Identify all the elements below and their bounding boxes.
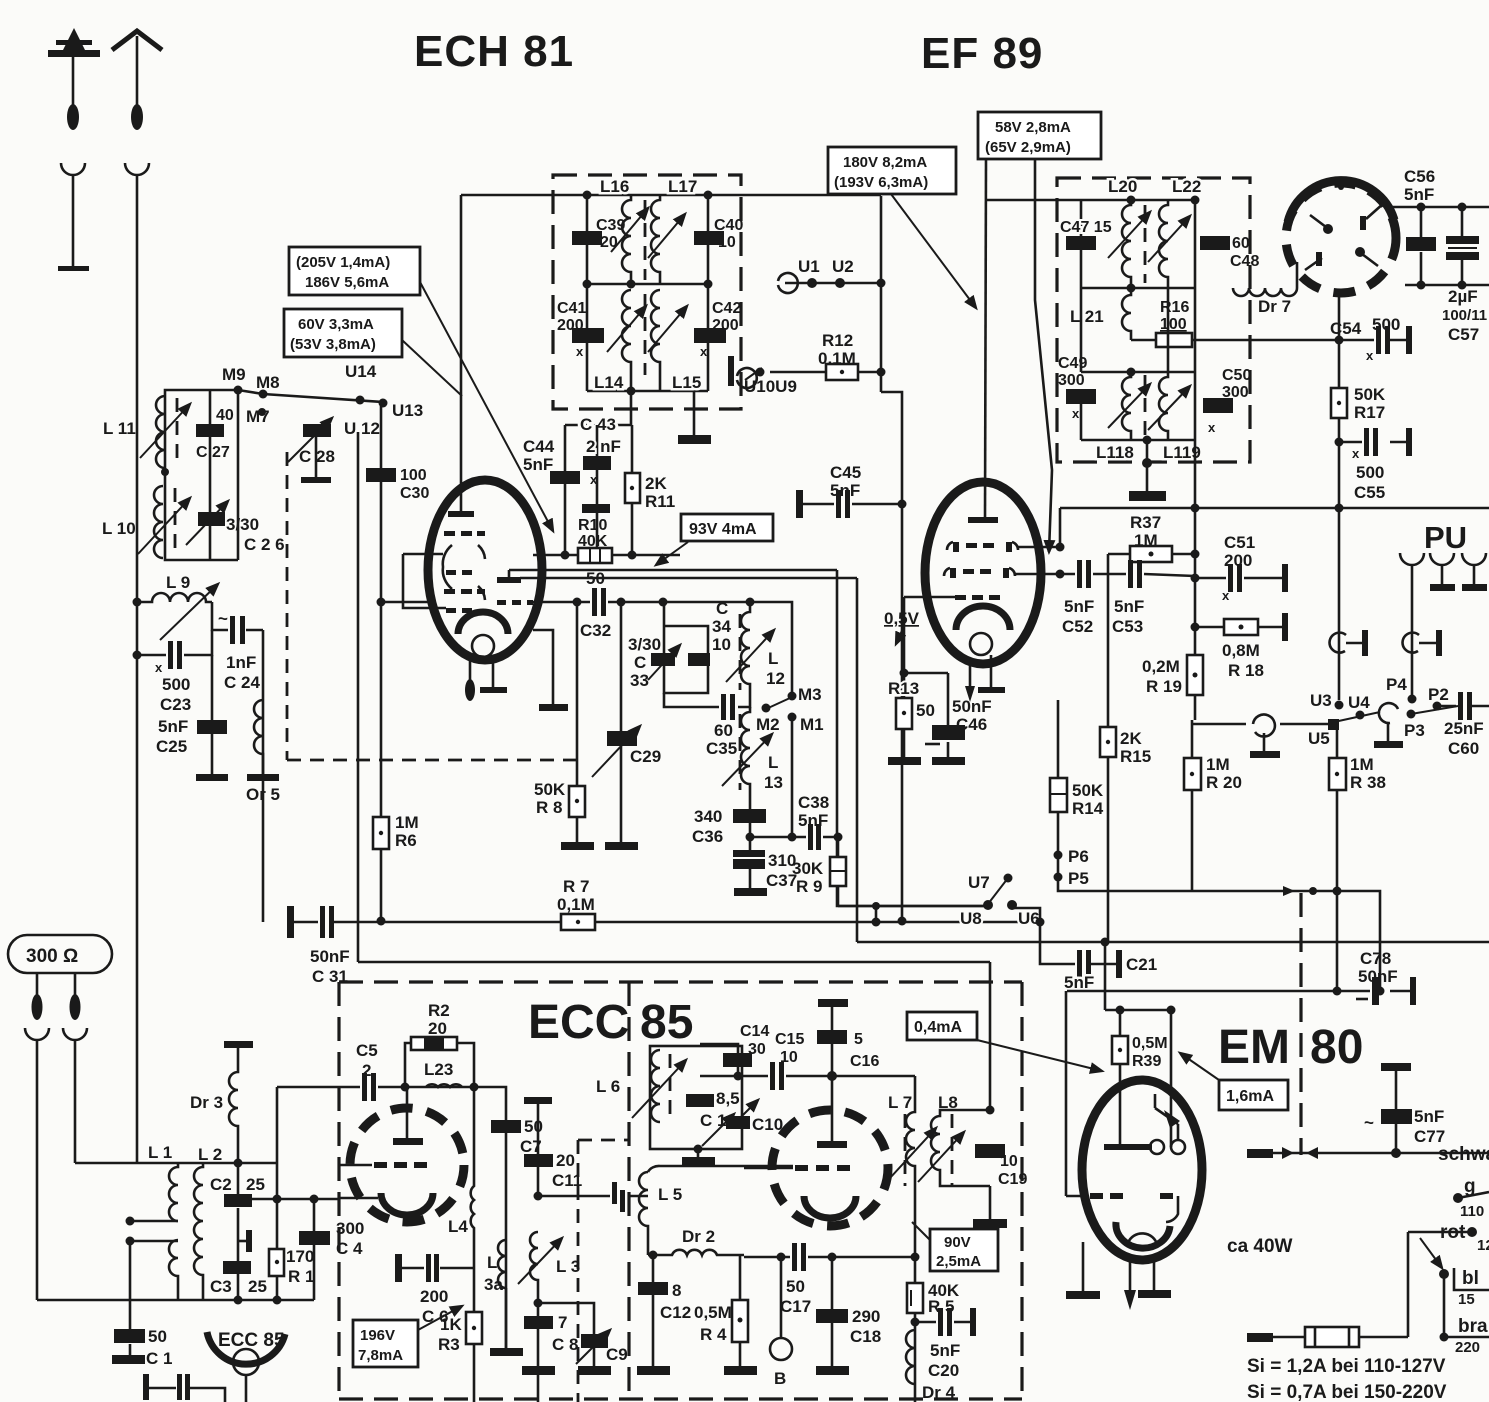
- svg-text:1M: 1M: [1350, 755, 1374, 774]
- svg-text:40: 40: [216, 407, 234, 424]
- coil L13: [741, 707, 750, 811]
- trimmer arrow L10: [138, 498, 190, 554]
- capacitor C44 5nF: [564, 425, 567, 555]
- svg-text:R39: R39: [1132, 1053, 1161, 1070]
- svg-text:L 10: L 10: [102, 519, 136, 538]
- coil L11: [156, 396, 165, 468]
- capacitor C50 300: [1194, 288, 1197, 440]
- PU socket 3: [1462, 553, 1486, 565]
- AVC dashed line vertical: [286, 452, 289, 760]
- wire bottom rail right: [1405, 284, 1489, 287]
- svg-text:bl: bl: [1462, 1268, 1479, 1289]
- svg-text:R 7: R 7: [563, 877, 589, 896]
- capacitor C53 5nF: [1124, 574, 1195, 576]
- svg-text:0,4mA: 0,4mA: [914, 1019, 962, 1036]
- svg-text:0,5M: 0,5M: [1132, 1035, 1168, 1052]
- wire grid row to L23: [405, 1086, 474, 1089]
- capacitor C11 20: [524, 1154, 553, 1167]
- wire C24 right to AVC column: [262, 630, 265, 922]
- coil L6: [651, 1050, 660, 1122]
- ECH81 cathode leads: [469, 658, 472, 684]
- svg-text:Or 5: Or 5: [246, 785, 280, 804]
- mains selector switch: [1408, 1232, 1472, 1337]
- wire L3a bottom to ground: [505, 1288, 508, 1352]
- coil L20: [1122, 200, 1131, 288]
- EF89 cathode arc: [956, 606, 1010, 630]
- svg-text:L 21: L 21: [1070, 307, 1104, 326]
- svg-text:500: 500: [1356, 463, 1384, 482]
- svg-text:34: 34: [712, 617, 731, 636]
- svg-text:2K: 2K: [645, 474, 667, 493]
- svg-text:U6: U6: [1018, 909, 1040, 928]
- AVC dashed line horizontal: [287, 759, 578, 762]
- svg-text:200: 200: [712, 317, 739, 334]
- svg-text:33: 33: [630, 671, 649, 690]
- svg-text:C40: C40: [714, 217, 743, 234]
- capacitor C45 5nF: [800, 503, 902, 506]
- svg-text:P5: P5: [1068, 869, 1089, 888]
- fuse Si: [1272, 1336, 1408, 1339]
- svg-text:M8: M8: [256, 373, 280, 392]
- svg-text:R12: R12: [822, 331, 853, 350]
- svg-text:10: 10: [718, 234, 736, 251]
- triode A cathode arc: [381, 1193, 433, 1215]
- svg-text:schwa: schwa: [1438, 1144, 1489, 1165]
- svg-text:L 9: L 9: [166, 573, 190, 592]
- coil L9: [137, 593, 212, 602]
- coil L118: [1122, 372, 1131, 440]
- svg-text:58V 2,8mA: 58V 2,8mA: [995, 119, 1071, 136]
- svg-text:U14: U14: [345, 362, 377, 381]
- tube ECH81 envelope: [428, 480, 542, 660]
- svg-text:L: L: [487, 1253, 497, 1272]
- svg-text:R2: R2: [428, 1001, 450, 1020]
- svg-text:60: 60: [714, 721, 733, 740]
- svg-text:L20: L20: [1108, 177, 1137, 196]
- svg-text:R 38: R 38: [1350, 773, 1386, 792]
- svg-text:50nF: 50nF: [310, 947, 350, 966]
- svg-text:85: 85: [640, 996, 693, 1049]
- svg-text:3a: 3a: [484, 1275, 503, 1294]
- svg-text:0,1M: 0,1M: [557, 895, 595, 914]
- svg-text:x: x: [590, 472, 598, 487]
- contact P2 and capacitor C60 25nF: [1433, 702, 1442, 711]
- svg-text:300: 300: [336, 1219, 364, 1238]
- trimmer capacitor C33 3/30: [651, 653, 675, 666]
- svg-text:P4: P4: [1386, 675, 1407, 694]
- wire PU/U3 column: [1338, 508, 1341, 700]
- svg-text:C53: C53: [1112, 617, 1143, 636]
- wire magic eye column: [1338, 293, 1341, 508]
- EF89 row2 wire to C52: [1015, 573, 1060, 576]
- coil L21: [1122, 288, 1131, 340]
- EF89 row3 wire left (g3): [904, 596, 957, 599]
- node M9: [234, 386, 243, 395]
- capacitor C27: [209, 390, 212, 560]
- svg-text:3/30: 3/30: [226, 515, 259, 534]
- capacitor C30 on U13 line: [380, 403, 383, 921]
- IF transformer box 2 dashed border: [1057, 178, 1250, 462]
- svg-text:C5: C5: [356, 1041, 378, 1060]
- svg-text:x: x: [576, 344, 584, 359]
- capacitor C43 2nF: [596, 425, 599, 548]
- svg-text:EF 89: EF 89: [921, 29, 1043, 78]
- svg-text:PU: PU: [1424, 520, 1467, 555]
- wire EM80 feed column: [1066, 942, 1105, 1196]
- svg-text:5nF: 5nF: [1064, 597, 1094, 616]
- svg-text:C42: C42: [712, 300, 741, 317]
- capacitor C37 310: [733, 850, 765, 857]
- svg-text:7,8mA: 7,8mA: [358, 1347, 403, 1364]
- svg-text:C51: C51: [1224, 533, 1255, 552]
- EF89 heater circle: [970, 633, 992, 655]
- dashed line EM80: [1299, 893, 1302, 1155]
- svg-text:R 8: R 8: [536, 798, 562, 817]
- svg-text:25: 25: [248, 1277, 267, 1296]
- svg-text:C32: C32: [580, 621, 611, 640]
- capacitor C6 200: [400, 1267, 474, 1270]
- wire input row: [75, 1162, 278, 1165]
- 1,6mA box: [1219, 1080, 1288, 1110]
- svg-text:U7: U7: [968, 873, 990, 892]
- capacitor C21 5nF: [1077, 950, 1082, 978]
- svg-text:(193V 6,3mA): (193V 6,3mA): [834, 174, 928, 191]
- EM80 bottom leads: [1082, 1242, 1085, 1292]
- trimmer capacitor C26 3/30: [237, 390, 240, 560]
- wire anode row to R10/R11: [533, 554, 680, 557]
- ground IF box 2: [1146, 440, 1149, 492]
- resistor R9 30K: [837, 837, 840, 906]
- svg-text:C10: C10: [752, 1115, 783, 1134]
- svg-text:U 12: U 12: [344, 419, 380, 438]
- trimmer capacitor C9: [538, 1303, 594, 1336]
- wire U1 U2 row: [785, 282, 881, 285]
- svg-text:C29: C29: [630, 747, 661, 766]
- svg-text:C 1: C 1: [146, 1349, 172, 1368]
- choke Dr7: [1233, 288, 1297, 296]
- svg-text:C 2 6: C 2 6: [244, 535, 285, 554]
- tube ECH81 bottom stub to ground: [533, 630, 553, 705]
- 90V 2,5mA box: [930, 1229, 998, 1271]
- trimmer arrows L7/L8: [890, 1128, 936, 1178]
- svg-text:Si = 1,2A bei 110-127V: Si = 1,2A bei 110-127V: [1247, 1356, 1446, 1377]
- wire IF1 mid rail: [587, 283, 708, 286]
- coil L17: [651, 195, 660, 284]
- capacitor C13 8,5: [686, 1094, 714, 1107]
- inner dashed partition: [578, 1140, 629, 1402]
- capacitor C17 50: [744, 1256, 915, 1259]
- svg-text:x: x: [155, 660, 163, 675]
- svg-text:50K: 50K: [534, 780, 566, 799]
- resistor R6 1M: [373, 817, 389, 849]
- contacts U8 U6: [983, 900, 993, 910]
- wire EF89 screen column: [880, 196, 883, 392]
- wire 58V box to EF89 grid3: [1035, 159, 1052, 552]
- resistor R1 170: [276, 1199, 279, 1300]
- ferrite antenna symbol: [48, 28, 100, 130]
- svg-text:x: x: [1222, 588, 1230, 603]
- svg-text:C11: C11: [552, 1171, 582, 1190]
- hook contact P4 column: [1403, 633, 1436, 653]
- triode B grid dashes: [795, 1165, 850, 1171]
- resistor R8 50K: [576, 760, 579, 843]
- wire IF2 bottom rail: [1081, 439, 1195, 442]
- svg-text:C19: C19: [998, 1171, 1027, 1188]
- node and capacitor C8 7: [534, 1299, 543, 1308]
- triode A anode bar and lead: [406, 1087, 409, 1139]
- ECH81 heater circle: [472, 635, 494, 657]
- wire L7 down / resistor R5 40K: [914, 1190, 917, 1283]
- wire FM socket right down: [74, 1040, 77, 1163]
- svg-text:500: 500: [162, 675, 190, 694]
- svg-text:7: 7: [558, 1313, 567, 1332]
- svg-text:L 11: L 11: [103, 419, 136, 438]
- coil L5: [639, 1172, 648, 1255]
- svg-text:186V 5,6mA: 186V 5,6mA: [305, 274, 389, 291]
- trimmer arrows L16/L17: [611, 208, 648, 252]
- capacitor C40: [707, 195, 710, 284]
- svg-text:300: 300: [1058, 372, 1085, 389]
- svg-text:C17: C17: [780, 1297, 811, 1316]
- svg-text:x: x: [1352, 446, 1360, 461]
- svg-text:~: ~: [1364, 1113, 1374, 1132]
- coil L2: [194, 1163, 203, 1300]
- wire tank bottom rail: [165, 472, 238, 560]
- coil L3: [530, 1232, 538, 1303]
- trimmer capacitor C29: [620, 602, 623, 843]
- terminal and C11 column: [524, 1097, 552, 1104]
- svg-text:x: x: [1072, 406, 1080, 421]
- svg-text:R3: R3: [438, 1335, 460, 1354]
- svg-text:2,5mA: 2,5mA: [936, 1253, 981, 1270]
- svg-text:5nF: 5nF: [930, 1341, 960, 1360]
- svg-text:0,2M: 0,2M: [1142, 657, 1180, 676]
- svg-text:C60: C60: [1448, 739, 1479, 758]
- wire P5 row to EM80 column: [1058, 877, 1380, 991]
- svg-text:C 4: C 4: [336, 1239, 363, 1258]
- triode A grid wire left: [339, 1164, 372, 1167]
- svg-text:2K: 2K: [1120, 729, 1142, 748]
- svg-text:R13: R13: [888, 679, 919, 698]
- svg-text:R11: R11: [645, 492, 675, 511]
- choke Dr4: [906, 1330, 915, 1384]
- svg-text:L4: L4: [448, 1217, 468, 1236]
- AVC bus with C31: [294, 921, 1040, 924]
- wire IF1 top rail: [461, 194, 881, 197]
- PU socket 1: [1400, 553, 1424, 565]
- svg-text:C52: C52: [1062, 617, 1093, 636]
- capacitor C41: [586, 284, 589, 391]
- svg-text:C57: C57: [1448, 325, 1479, 344]
- resistor R38 1M: [1336, 724, 1339, 991]
- svg-text:(65V 2,9mA): (65V 2,9mA): [985, 139, 1071, 156]
- svg-text:3/30: 3/30: [628, 635, 661, 654]
- svg-text:C23: C23: [160, 695, 191, 714]
- capacitor C52 5nF: [1060, 573, 1124, 576]
- svg-text:290: 290: [852, 1307, 880, 1326]
- svg-text:C47 15: C47 15: [1060, 219, 1112, 236]
- svg-text:1M: 1M: [1206, 755, 1230, 774]
- coil L10: [154, 486, 163, 558]
- FM bus lower: [358, 961, 990, 964]
- capacitor C49 300: [1066, 389, 1096, 404]
- antenna socket right / wire: [125, 163, 149, 1163]
- trimmer arrow L11: [140, 404, 190, 458]
- tube EM80 envelope: [1082, 1080, 1202, 1260]
- IF transformer box 1 dashed border: [553, 175, 741, 409]
- svg-text:P6: P6: [1068, 847, 1089, 866]
- svg-text:U8: U8: [960, 909, 982, 928]
- bus B from triode grid bar: [520, 577, 857, 580]
- svg-text:Dr 2: Dr 2: [682, 1227, 715, 1246]
- svg-text:200: 200: [557, 317, 584, 334]
- coil L22: [1159, 200, 1168, 288]
- svg-text:1K: 1K: [440, 1315, 462, 1334]
- ECH81 grid rows: [444, 531, 533, 613]
- svg-text:50K: 50K: [1072, 781, 1104, 800]
- triode A grid dashes: [374, 1162, 427, 1168]
- svg-text:93V 4mA: 93V 4mA: [689, 521, 757, 538]
- svg-text:~: ~: [218, 609, 228, 628]
- svg-text:20: 20: [556, 1151, 575, 1170]
- svg-text:L 1: L 1: [148, 1143, 172, 1162]
- blau tap: [1439, 1269, 1449, 1279]
- capacitor C48 60: [1194, 200, 1197, 288]
- svg-text:x: x: [1366, 348, 1374, 363]
- svg-text:M7: M7: [246, 407, 270, 426]
- svg-text:8,5: 8,5: [716, 1089, 740, 1108]
- bus EM80 row: [1067, 990, 1337, 993]
- svg-text:R37: R37: [1130, 513, 1161, 532]
- svg-text:L 2: L 2: [198, 1145, 222, 1164]
- svg-text:Dr 3: Dr 3: [190, 1093, 223, 1112]
- svg-text:C55: C55: [1354, 483, 1385, 502]
- ECH81 anode lead: [460, 195, 463, 513]
- svg-text:60: 60: [1232, 235, 1250, 252]
- svg-text:R17: R17: [1354, 403, 1385, 422]
- wire IF2 top rail: [986, 199, 1195, 202]
- capacitor C18 290: [831, 1257, 834, 1368]
- capacitor C36 340: [733, 809, 766, 823]
- choke Dr5: [254, 700, 263, 775]
- svg-text:C: C: [634, 653, 646, 672]
- svg-text:25: 25: [246, 1175, 265, 1194]
- capacitor C1 50: [129, 1241, 132, 1356]
- choke Dr3: [224, 1041, 253, 1048]
- svg-text:C36: C36: [692, 827, 723, 846]
- svg-text:80: 80: [1310, 1021, 1363, 1074]
- svg-text:C18: C18: [850, 1327, 881, 1346]
- svg-text:M9: M9: [222, 365, 246, 384]
- triode A cathode wire: [339, 1197, 378, 1200]
- svg-text:C30: C30: [400, 485, 429, 502]
- svg-text:110: 110: [1460, 1203, 1484, 1220]
- svg-text:5nF: 5nF: [1414, 1107, 1444, 1126]
- voltage box 60V 3,3mA/(53V 3,8mA): [284, 309, 402, 357]
- svg-text:0,5M: 0,5M: [694, 1303, 732, 1322]
- svg-text:P3: P3: [1404, 721, 1425, 740]
- svg-text:L: L: [768, 649, 778, 668]
- svg-text:300 Ω: 300 Ω: [26, 946, 78, 967]
- resistor R15 2K: [1107, 554, 1110, 942]
- svg-text:B: B: [774, 1369, 786, 1388]
- svg-text:R 19: R 19: [1146, 677, 1182, 696]
- triode B anode bar: [817, 1141, 847, 1148]
- svg-text:x: x: [1208, 420, 1216, 435]
- oscillator loop C33/C34: [664, 602, 708, 693]
- wire U5 row: [1280, 723, 1330, 726]
- 0,4mA box: [907, 1012, 977, 1040]
- node tank mid: [161, 468, 169, 476]
- svg-text:C9: C9: [606, 1345, 628, 1364]
- tube EF89 envelope: [925, 482, 1041, 664]
- svg-text:L 7: L 7: [888, 1093, 912, 1112]
- main bus 93V row: [1060, 507, 1489, 510]
- svg-text:Dr 4: Dr 4: [922, 1383, 956, 1402]
- svg-text:C20: C20: [928, 1361, 959, 1380]
- svg-text:5nF: 5nF: [1404, 185, 1434, 204]
- wire bus A down: [837, 570, 988, 906]
- svg-text:200: 200: [420, 1287, 448, 1306]
- capacitor C77 5nF: [1381, 1063, 1411, 1071]
- wire bus B down: [856, 578, 859, 942]
- capacitor C4 300: [313, 1199, 316, 1300]
- svg-text:C25: C25: [156, 737, 187, 756]
- ECC85 dashed box: [339, 982, 1022, 1399]
- resistor R11 2K: [631, 425, 634, 555]
- coil L12: [741, 602, 750, 694]
- heater capacitor: [143, 1374, 149, 1400]
- resistor R13 50: [896, 698, 912, 729]
- arrow from 180V box to EF89: [891, 194, 976, 308]
- svg-text:8: 8: [672, 1281, 681, 1300]
- svg-text:50: 50: [586, 569, 605, 588]
- svg-text:M3: M3: [798, 685, 822, 704]
- lower bus to right edge: [857, 941, 1489, 944]
- EF89 cathode leads: [969, 660, 972, 686]
- svg-text:12: 12: [766, 669, 785, 688]
- ground IF box 1: [693, 391, 696, 436]
- svg-text:10: 10: [1000, 1153, 1018, 1170]
- svg-text:5nF: 5nF: [1064, 973, 1094, 992]
- svg-text:L 5: L 5: [658, 1185, 682, 1204]
- svg-text:g: g: [1464, 1176, 1476, 1197]
- EF89 grid T-bar: [968, 517, 998, 523]
- svg-text:C54: C54: [1330, 319, 1362, 338]
- wire tank top rail: [165, 390, 238, 471]
- wire C5 feed up: [277, 1087, 339, 1199]
- svg-text:x: x: [700, 344, 708, 359]
- trimmer arrows L14/L15: [607, 306, 646, 352]
- capacitor C25 5nF: [211, 655, 214, 775]
- wire jog to lower column: [881, 392, 902, 921]
- wire EF89 top lead from box: [985, 159, 986, 518]
- svg-text:R 4: R 4: [700, 1325, 727, 1344]
- svg-text:U3: U3: [1310, 691, 1332, 710]
- svg-text:50nF: 50nF: [952, 697, 992, 716]
- svg-text:C14: C14: [740, 1023, 769, 1040]
- svg-text:C49: C49: [1058, 355, 1087, 372]
- svg-text:bra: bra: [1458, 1316, 1488, 1337]
- resistor R19 0,2M: [1187, 655, 1203, 695]
- svg-text:L17: L17: [668, 177, 697, 196]
- wire anode row down C7: [474, 1087, 506, 1352]
- ECH81 grid bracket arcs: [443, 545, 452, 589]
- svg-text:50K: 50K: [1354, 385, 1386, 404]
- contact U3: [1335, 701, 1344, 710]
- arrow from 60V box: [402, 340, 462, 396]
- svg-text:30K: 30K: [792, 859, 824, 878]
